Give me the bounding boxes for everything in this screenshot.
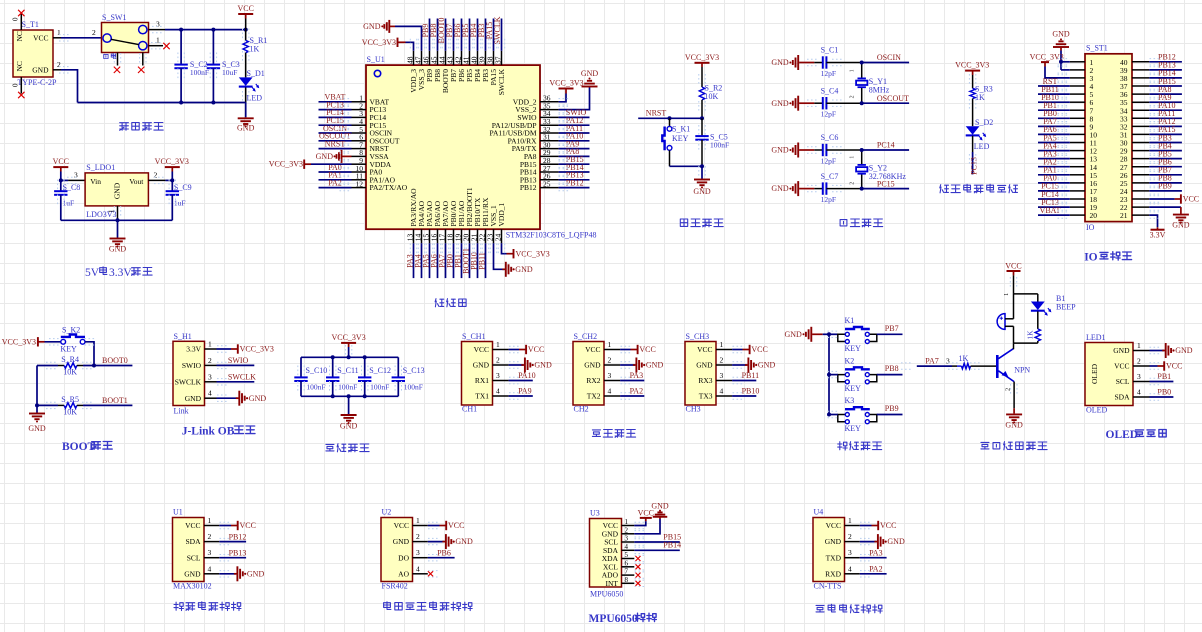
net label PA2 S_CH2 pin4 <box>620 387 644 396</box>
junction bus <box>827 413 831 417</box>
svg-text:RX3: RX3 <box>698 376 712 385</box>
svg-text:24: 24 <box>493 234 502 242</box>
net label PA15 chip top <box>485 19 494 51</box>
svg-text:1: 1 <box>608 340 612 349</box>
wire VCC branch to LED <box>1014 293 1038 295</box>
no-connect X MPU pin6 <box>636 564 641 569</box>
switch S_SW1 <box>102 13 166 66</box>
svg-text:TYPE-C-2P: TYPE-C-2P <box>17 78 57 87</box>
net label PC15 IO left <box>1038 182 1070 191</box>
svg-text:GND: GND <box>771 146 789 155</box>
svg-text:PB9: PB9 <box>1158 182 1172 191</box>
crystal S_Y2 32.768KHz <box>850 150 907 189</box>
connector S_CH2 <box>573 332 620 413</box>
svg-text:U2: U2 <box>382 508 392 517</box>
svg-text:GND: GND <box>1175 346 1193 355</box>
power flag VCC IO pin23 <box>1149 194 1199 203</box>
svg-text:GND: GND <box>758 361 776 370</box>
no-connect X MPU pin8 <box>636 581 641 586</box>
junction NRST/R2/C5 <box>700 116 704 120</box>
svg-text:PA2: PA2 <box>630 387 644 396</box>
net label PB9 button <box>877 404 903 414</box>
ground GND MPU <box>634 502 669 534</box>
svg-text:CN-TTS: CN-TTS <box>814 582 842 591</box>
resistor S_R1 1K <box>243 30 267 78</box>
svg-text:GND: GND <box>249 394 267 403</box>
svg-text:GND: GND <box>184 569 201 578</box>
svg-text:PB12: PB12 <box>520 183 537 192</box>
svg-text:CH1: CH1 <box>462 405 477 414</box>
svg-text:GND: GND <box>247 569 265 578</box>
resistor S_R2 10K <box>699 84 722 119</box>
svg-text:VCC: VCC <box>697 345 712 354</box>
svg-text:VBAT: VBAT <box>1040 206 1061 215</box>
svg-text:SWCLK: SWCLK <box>175 377 202 386</box>
svg-text:K3: K3 <box>845 396 855 405</box>
net label PB5 chip top <box>461 19 470 51</box>
title crystal circuit <box>840 219 883 227</box>
net label VBAT IO left <box>1038 206 1070 215</box>
net flag 3.3V IO pin21 <box>1149 215 1165 239</box>
connector S_T1 TYPE-C-2P <box>12 14 62 94</box>
svg-text:5V: 5V <box>85 267 100 279</box>
capacitor S_C4 12pF <box>814 86 861 118</box>
svg-text:S_C9: S_C9 <box>174 183 192 192</box>
power flag VCC U4 <box>860 521 897 530</box>
title power circuit <box>120 123 164 131</box>
ground GND S_CH1 pin2 <box>509 358 552 373</box>
svg-text:PA2/TX/AO: PA2/TX/AO <box>370 183 408 192</box>
wire switch pin3 to VCC node <box>165 29 246 31</box>
junction filter top <box>331 355 335 359</box>
capacitor S_C12 100nF <box>358 357 391 396</box>
net label OSCIN <box>862 53 909 62</box>
capacitor S_C11 100nF <box>326 357 359 396</box>
svg-text:GND: GND <box>316 152 334 161</box>
ground GND S_CH2 pin2 <box>620 358 663 373</box>
net label SWIO J-Link <box>217 356 255 365</box>
svg-text:PA9: PA9 <box>518 387 532 396</box>
no-connect X MPU pin5 <box>636 556 641 561</box>
svg-text:100nF: 100nF <box>370 382 389 391</box>
svg-text:SWCLK: SWCLK <box>228 373 256 382</box>
net label PA12 IO right <box>1149 117 1182 126</box>
junction filter bottom <box>363 394 367 398</box>
net label PB4 chip top <box>469 19 478 51</box>
junction LDO pin1 <box>116 218 120 222</box>
power flag VCC_3V3 chip VDD_3 pin48 <box>362 38 414 51</box>
svg-text:2: 2 <box>496 356 500 365</box>
net label PA8 chip right <box>559 147 590 156</box>
svg-text:4: 4 <box>208 389 212 398</box>
svg-text:1: 1 <box>208 340 212 349</box>
svg-text:3: 3 <box>848 548 852 557</box>
svg-text:PC13: PC13 <box>970 157 979 175</box>
ground GND U2 <box>428 534 473 549</box>
junction crystal net <box>860 148 864 152</box>
junction bottom C2 <box>179 101 183 105</box>
capacitor S_C3 10uF <box>207 30 240 103</box>
LED alarm blue <box>1031 294 1052 316</box>
svg-text:IO: IO <box>1084 252 1097 264</box>
net label PA0 chip left pin 10 <box>319 163 352 172</box>
resistor S_R3 1K <box>970 85 993 127</box>
svg-text:100nF: 100nF <box>404 382 423 391</box>
svg-text:20: 20 <box>1090 211 1098 220</box>
svg-text:4: 4 <box>496 387 500 396</box>
svg-text:VCC: VCC <box>394 521 409 530</box>
svg-text:1: 1 <box>720 340 724 349</box>
svg-text:FSR402: FSR402 <box>382 582 408 591</box>
net label PB11 IO left <box>1038 85 1070 94</box>
net label PC15 chip left pin 4 <box>319 116 352 125</box>
svg-text:PB13: PB13 <box>229 548 247 557</box>
filter top bus wire <box>301 356 398 358</box>
push button K1 KEY <box>838 316 877 353</box>
svg-text:TX3: TX3 <box>699 392 713 401</box>
net label PC13 chip left pin 2 <box>319 100 352 109</box>
svg-text:PB11: PB11 <box>477 252 486 270</box>
svg-text:GND: GND <box>363 22 381 31</box>
svg-text:GND: GND <box>581 69 599 78</box>
net label PB7 IO right <box>1149 166 1182 175</box>
net label PB12 chip right <box>559 178 590 187</box>
svg-text:PB12: PB12 <box>229 532 247 541</box>
ground GND power circuit <box>237 103 255 133</box>
title 5V to 3.3V circuit <box>85 267 152 279</box>
net label PB10 S_CH3 pin4 <box>732 387 759 396</box>
net label PC14 chip left pin 3 <box>319 108 352 117</box>
svg-text:GND: GND <box>28 424 46 433</box>
svg-text:PB6: PB6 <box>437 548 451 557</box>
capacitor S_C13 100nF <box>392 357 425 396</box>
resistor 1K alarm vertical <box>1025 311 1040 343</box>
svg-text:U1: U1 <box>173 508 183 517</box>
svg-text:1: 1 <box>848 516 852 525</box>
svg-text:1: 1 <box>156 36 160 45</box>
push button K2 KEY <box>838 356 877 393</box>
ground GND reset <box>693 166 711 196</box>
svg-text:SWIO: SWIO <box>228 356 249 365</box>
capacitor S_C9 1uF <box>166 180 192 220</box>
svg-text:S_D2: S_D2 <box>975 118 993 127</box>
svg-text:S_CH3: S_CH3 <box>686 332 710 341</box>
svg-text:VCC: VCC <box>448 521 464 530</box>
svg-text:VCC_3V3: VCC_3V3 <box>685 53 719 62</box>
svg-text:3: 3 <box>946 356 950 365</box>
crystal S_Y1 8MHz <box>849 63 889 104</box>
svg-text:100nF: 100nF <box>306 382 325 391</box>
svg-text:1K: 1K <box>1025 330 1034 340</box>
svg-text:2: 2 <box>850 182 856 185</box>
svg-text:VCC_3V3: VCC_3V3 <box>331 333 365 342</box>
svg-text:NC: NC <box>15 61 24 71</box>
main chip U1 STM32F103C8T6_LQFP48 <box>352 51 597 244</box>
svg-text:J-Link OB: J-Link OB <box>182 426 235 438</box>
display LED1 OLED <box>1085 333 1150 415</box>
junction filter bottom <box>331 394 335 398</box>
net label PA1 IO left <box>1038 166 1070 175</box>
power flag VCC_3V3 chip VDD_2 pin36 <box>549 79 583 102</box>
net label PC14 <box>862 141 909 150</box>
svg-text:LED1: LED1 <box>1086 333 1106 342</box>
svg-text:VCC: VCC <box>1005 261 1021 270</box>
power flag VCC U2 <box>428 521 465 530</box>
svg-text:NC: NC <box>15 31 24 41</box>
junction crystal net <box>860 101 864 105</box>
svg-text:PA3: PA3 <box>630 371 644 380</box>
junction bus <box>827 332 831 336</box>
wire BOOT left bus <box>36 366 38 413</box>
svg-text:S_C6: S_C6 <box>821 133 839 142</box>
net label VBAT chip left pin 1 <box>319 93 352 102</box>
svg-text:2: 2 <box>154 170 158 179</box>
svg-text:STM32F103C8T6_LQFP48: STM32F103C8T6_LQFP48 <box>506 231 597 240</box>
svg-text:VCC: VCC <box>53 157 69 166</box>
wire VCC to LDO pin3 <box>61 170 85 180</box>
net label PB12 U1 <box>219 532 246 541</box>
svg-text:VCC_3V3: VCC_3V3 <box>155 157 189 166</box>
svg-text:PA3: PA3 <box>869 548 883 557</box>
wire LDO pin2 to C9 <box>165 179 172 181</box>
svg-text:1K: 1K <box>959 354 969 363</box>
net label PB10 IO left <box>1038 93 1070 102</box>
module U3 MPU6050 <box>590 509 635 599</box>
svg-text:S_H1: S_H1 <box>174 332 192 341</box>
net label NRST chip left pin 7 <box>319 139 352 148</box>
net label PB13 IO right <box>1149 61 1182 70</box>
net label PB1 chip bottom <box>453 243 462 278</box>
svg-text:S_SW1: S_SW1 <box>102 13 126 22</box>
net label NRST wire <box>638 109 702 119</box>
power flag VCC_3V3 at C9 <box>155 157 189 180</box>
svg-text:VDD_1: VDD_1 <box>497 203 506 227</box>
net label PB13 U1 <box>219 548 246 557</box>
svg-text:PB7: PB7 <box>885 324 899 333</box>
svg-text:12pF: 12pF <box>821 110 836 119</box>
net label PA11 chip right <box>559 124 590 133</box>
svg-text:VCC: VCC <box>880 521 896 530</box>
svg-text:GND: GND <box>340 422 358 431</box>
svg-text:1: 1 <box>57 28 61 37</box>
svg-text:K2: K2 <box>845 356 855 365</box>
svg-text:PB11: PB11 <box>742 371 760 380</box>
net label PA6 chip bottom <box>429 243 438 278</box>
no-connect X MPU pin7 <box>636 573 641 578</box>
net label PB10 chip bottom <box>469 243 478 278</box>
svg-text:10K: 10K <box>63 368 77 377</box>
net label PA10 S_CH1 pin3 <box>509 371 536 380</box>
resistor 1K base <box>952 354 996 369</box>
svg-text:OSCIN: OSCIN <box>877 53 901 62</box>
ground GND IO top <box>1052 30 1070 70</box>
svg-text:VCC: VCC <box>1183 195 1199 204</box>
power flag VCC MPU <box>634 509 654 526</box>
net label PB8 chip top <box>429 19 438 51</box>
svg-text:SWIO: SWIO <box>182 361 202 370</box>
no-connect X top pin T1 <box>18 10 24 16</box>
ground GND OLED pin1 <box>1150 343 1193 358</box>
svg-text:OSCOUT: OSCOUT <box>877 94 909 103</box>
power flag VCC at LDO <box>53 157 69 180</box>
svg-text:VCC: VCC <box>1114 362 1129 371</box>
filter bottom bus wire <box>301 395 398 397</box>
svg-text:VCC: VCC <box>474 345 489 354</box>
power flag VCC_3V3 chip VDDA pin9 <box>269 160 352 169</box>
net label PA0 IO left <box>1038 174 1070 183</box>
svg-text:12pF: 12pF <box>821 156 836 165</box>
svg-text:4: 4 <box>1137 388 1141 397</box>
svg-text:3: 3 <box>156 20 160 29</box>
svg-text:GND: GND <box>887 537 905 546</box>
svg-text:3: 3 <box>208 372 212 381</box>
svg-text:4: 4 <box>416 564 420 573</box>
svg-text:1: 1 <box>850 156 856 159</box>
svg-text:LED: LED <box>247 94 263 103</box>
ground GND chip VSS_1 pin23 <box>494 243 533 276</box>
svg-text:10uF: 10uF <box>222 68 237 77</box>
svg-text:VCC: VCC <box>237 4 253 13</box>
ground GND U4 <box>860 534 905 549</box>
net label PB8 button <box>877 364 903 374</box>
net label PC15 <box>862 179 909 188</box>
svg-text:VCC: VCC <box>528 345 544 354</box>
svg-text:0: 0 <box>12 17 20 21</box>
power flag VCC_3V3 BOOT <box>2 337 61 346</box>
junction filter top <box>363 355 367 359</box>
svg-text:KEY: KEY <box>845 344 862 353</box>
svg-text:PA7: PA7 <box>925 356 939 365</box>
svg-text:CH3: CH3 <box>686 405 701 414</box>
svg-text:KEY: KEY <box>60 345 77 354</box>
junction VCC/C8/LDO <box>59 178 63 182</box>
svg-text:VCC: VCC <box>751 345 767 354</box>
net label BOOT0 <box>83 356 132 365</box>
svg-text:GND: GND <box>1172 220 1190 229</box>
ground GND crystal row <box>798 188 799 190</box>
svg-text:12pF: 12pF <box>821 195 836 204</box>
svg-text:10K: 10K <box>705 92 719 101</box>
buzzer B1 BEEP <box>997 293 1076 330</box>
wire T1 GND down to bottom rail <box>61 70 78 103</box>
svg-text:Vin: Vin <box>90 177 101 186</box>
svg-text:3: 3 <box>496 371 500 380</box>
svg-text:S_LDO1: S_LDO1 <box>86 163 115 172</box>
svg-text:37: 37 <box>493 56 502 64</box>
net label OSCOUT chip left pin 6 <box>319 132 352 141</box>
ground GND filter <box>340 396 358 430</box>
power flag VCC_3V3 reset <box>685 53 719 87</box>
svg-text:4: 4 <box>608 387 612 396</box>
capacitor S_C8 1uF <box>54 180 80 220</box>
connector S_CH3 <box>685 332 732 413</box>
bottom rail wire power circuit <box>78 102 246 104</box>
svg-text:PB12: PB12 <box>566 178 584 187</box>
net label PA5 chip bottom <box>421 243 430 278</box>
net label SWCLK chip top <box>493 16 502 51</box>
net label PA10 IO right <box>1149 101 1182 110</box>
svg-text:100nF: 100nF <box>190 68 209 77</box>
net label PB13 chip right <box>559 171 590 180</box>
svg-text:NRST: NRST <box>646 109 667 118</box>
junction filter top <box>347 355 351 359</box>
bottom wire LDO circuit <box>61 219 173 221</box>
junction NRST/button <box>668 116 672 120</box>
junction BOOT0 node <box>92 364 96 368</box>
capacitor S_C6 12pF <box>814 133 861 165</box>
title key buttons circuit <box>838 442 882 450</box>
svg-text:TX1: TX1 <box>475 392 489 401</box>
capacitor S_C2 100nF <box>174 30 209 103</box>
module U1 <box>173 508 220 591</box>
junction bottom C3 <box>211 101 215 105</box>
ground GND chip VSS_2 pin35 <box>559 69 599 110</box>
svg-text:GND: GND <box>771 99 789 108</box>
svg-text:VCC: VCC <box>826 521 841 530</box>
wire emitter to GND <box>1013 382 1015 409</box>
svg-text:2: 2 <box>849 95 855 98</box>
net label PB3 chip top <box>477 19 486 51</box>
svg-text:PC14: PC14 <box>877 141 895 150</box>
junction top C3 <box>211 28 215 32</box>
net label PB3 IO right <box>1149 133 1182 142</box>
title serial port circuit <box>592 430 635 438</box>
net label PB5 IO right <box>1149 149 1182 158</box>
svg-text:S_C4: S_C4 <box>821 86 839 95</box>
net label PA9 chip right <box>559 139 590 148</box>
svg-text:VCC: VCC <box>1166 362 1182 371</box>
svg-text:BOOT0: BOOT0 <box>102 356 128 365</box>
net label PB9 IO right <box>1149 182 1182 191</box>
net label PA1 chip left pin 11 <box>319 171 352 180</box>
net label PC13 IO left <box>1038 198 1070 207</box>
capacitor S_C1 12pF <box>814 46 861 78</box>
net label PB1 OLED pin3 <box>1150 372 1174 381</box>
svg-text:K1: K1 <box>845 316 855 325</box>
svg-text:VCC_3V3: VCC_3V3 <box>549 79 583 88</box>
svg-text:SDA: SDA <box>1114 393 1130 402</box>
net label PB0 OLED pin4 <box>1150 388 1174 397</box>
push button K3 KEY <box>838 396 877 433</box>
svg-text:GND: GND <box>109 245 127 254</box>
svg-text:4: 4 <box>720 387 724 396</box>
svg-text:VCC_3V3: VCC_3V3 <box>516 249 550 258</box>
net label SWCLK J-Link <box>217 373 257 382</box>
net label BOOT1 chip bottom <box>461 243 470 278</box>
svg-text:PA10: PA10 <box>518 371 536 380</box>
svg-text:3.3V: 3.3V <box>1150 230 1166 239</box>
title IO expansion port <box>1084 252 1131 264</box>
svg-text:U3: U3 <box>590 509 600 518</box>
net label BOOT0 chip top <box>437 18 446 51</box>
svg-text:S_T1: S_T1 <box>22 20 39 29</box>
svg-text:3: 3 <box>608 371 612 380</box>
svg-text:S_K1: S_K1 <box>672 124 690 133</box>
svg-text:GND: GND <box>515 265 533 274</box>
net label PB11 S_CH3 pin3 <box>732 371 759 380</box>
net label SWIO chip right <box>559 108 590 117</box>
svg-text:S_R4: S_R4 <box>61 355 79 364</box>
net label PA11 IO right <box>1149 109 1182 118</box>
net label PA9 IO right <box>1149 93 1182 102</box>
resistor S_R4 10K <box>37 355 83 377</box>
title heart rate module <box>174 602 241 611</box>
junction top VCC/R1 <box>244 28 248 32</box>
no-connect X switch bottom a <box>114 67 120 73</box>
net label PB0 IO left <box>1038 109 1070 118</box>
svg-text:MPU6050: MPU6050 <box>590 590 623 599</box>
svg-text:2: 2 <box>416 532 420 541</box>
